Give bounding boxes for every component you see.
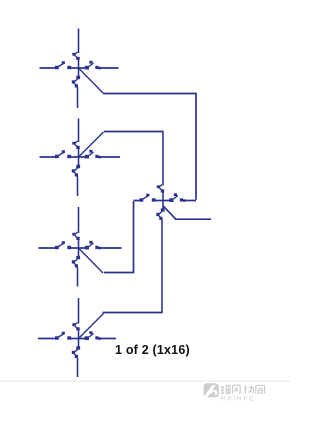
wire W3: SW3 to SW5 left branch [104, 201, 134, 272]
wire W4: SW4 to SW5 down branch [103, 312, 163, 314]
watermark text 瑞风协同 (drawn strokes) [221, 385, 265, 394]
wire: output diagonal and line [164, 206, 212, 219]
svg-text:RAINFE: RAINFE [221, 395, 256, 402]
separator line [0, 380, 290, 382]
switch group SW4 [38, 298, 116, 377]
wire W1: SW1 to SW5 right branch [103, 94, 196, 200]
svg-text:1 of 2 (1x16): 1 of 2 (1x16) [115, 343, 190, 357]
label: 1 of 2 (1x16) [115, 343, 190, 357]
switch group SW3 [39, 207, 122, 287]
switch group SW5 (output node) [134, 132, 197, 313]
watermark logo [203, 383, 218, 397]
watermark text RAINFE [221, 395, 256, 402]
wire W2: SW2 to SW5 up branch [104, 131, 164, 133]
switch group SW1 [40, 29, 119, 109]
switch group SW2 [40, 119, 121, 197]
